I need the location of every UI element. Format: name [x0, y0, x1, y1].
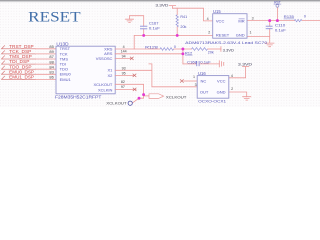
- wire R41 top stem to 3.3VD rail: [176, 8, 178, 15]
- net label TRST_DSP: [2, 46, 36, 49]
- net label TDO_DSP: [2, 66, 36, 69]
- no-connect x XCLKIN: [133, 88, 137, 91]
- junction ARS tie: [181, 52, 184, 55]
- wire U16 GND pin2 to ground: [229, 92, 247, 97]
- svg-text:U16: U16: [198, 71, 206, 76]
- off-page connector circle XCLKOUT bottom: [128, 101, 132, 105]
- svg-text:R135: R135: [284, 15, 294, 19]
- svg-text:XCLKOUT: XCLKOUT: [166, 96, 187, 100]
- wire C167 bottom stem: [143, 29, 145, 36]
- net label texts: [9, 44, 34, 80]
- wire R41 bottom stem: [176, 27, 178, 36]
- svg-text:4: 4: [231, 74, 233, 78]
- svg-text:VCC: VCC: [216, 19, 225, 24]
- resistor R135 zero ohm: [294, 19, 301, 21]
- wire C168 left: [183, 63, 197, 65]
- net label TMS_DSP: [2, 56, 36, 59]
- junction XCLKOUT net: [142, 93, 145, 96]
- ic U15 body: [213, 14, 247, 39]
- wire TDI: [36, 63, 57, 65]
- svg-text:20k: 20k: [180, 25, 186, 29]
- wire stub to port pennant: [144, 95, 150, 97]
- svg-text:2: 2: [231, 87, 233, 91]
- junction R41/reset-net: [176, 34, 179, 37]
- wire XRS continues after R128: [174, 48, 192, 50]
- power 3.3VD bar above U16: [243, 66, 249, 68]
- wire TCK: [36, 53, 57, 55]
- svg-text:ADM6713RAKS-2.63V-4 Lead SC70: ADM6713RAKS-2.63V-4 Lead SC70: [185, 41, 267, 45]
- wire 3.3VD rail to U15 VCC: [173, 8, 213, 21]
- svg-text:OCXO-OCX1: OCXO-OCX1: [198, 100, 226, 104]
- wire C110 bottom stem to ground: [269, 29, 271, 43]
- svg-text:F28M35H52C1RFPT: F28M35H52C1RFPT: [55, 95, 102, 100]
- wire U15 GND pin1: [247, 36, 270, 38]
- capacitor C168 sideways: [197, 61, 199, 66]
- wire C110 top stem: [269, 21, 271, 27]
- ground sideways after C168: [219, 61, 223, 67]
- svg-text:VCC: VCC: [217, 78, 226, 83]
- wire XRS pin4: [115, 48, 160, 50]
- svg-text:3: 3: [252, 16, 254, 20]
- svg-text:RESET: RESET: [216, 32, 230, 37]
- wire U16 VCC pin4 to 3.3VD: [229, 67, 246, 78]
- junction XRS/R12: [181, 48, 184, 51]
- svg-text:R128: R128: [145, 45, 158, 49]
- no-connect x VSSOSC: [130, 57, 134, 60]
- wire TDO: [36, 68, 57, 70]
- off-page connector RST: [276, 4, 279, 7]
- wire TRST: [36, 48, 57, 50]
- svg-text:0: 0: [174, 45, 176, 49]
- svg-text:XCLKIN: XCLKIN: [98, 87, 113, 92]
- svg-text:3: 3: [195, 83, 197, 87]
- svg-text:86: 86: [49, 75, 54, 80]
- no-connect x U16 NC: [180, 79, 184, 82]
- net label EMU1_DSP: [2, 76, 36, 79]
- wire XCLKOUT pin82 down to off-page: [115, 84, 143, 102]
- svg-text:GND: GND: [217, 90, 226, 95]
- svg-text:82: 82: [121, 80, 125, 84]
- wire to 3.3VD pullup after R12: [208, 48, 221, 50]
- svg-text:4: 4: [123, 45, 125, 49]
- svg-text:RESET: RESET: [28, 9, 81, 25]
- resistor R128: [160, 48, 174, 51]
- svg-text:1: 1: [193, 75, 195, 79]
- svg-text:GND: GND: [236, 32, 245, 37]
- U13D right pin names: [93, 46, 113, 92]
- svg-text:144: 144: [121, 50, 127, 54]
- svg-text:C168: C168: [187, 60, 197, 64]
- wire RST stem up to circle: [276, 7, 278, 20]
- svg-text:2: 2: [208, 30, 210, 34]
- ic U13D body: [56, 46, 115, 94]
- svg-text:1: 1: [250, 31, 252, 35]
- svg-text:R12: R12: [185, 51, 192, 55]
- svg-text:VSSOSC: VSSOSC: [96, 56, 113, 61]
- svg-text:94: 94: [122, 54, 126, 58]
- svg-text:NC: NC: [201, 78, 207, 83]
- top gray bar: [0, 0, 320, 3]
- junction RST: [276, 19, 279, 22]
- svg-text:93: 93: [122, 66, 126, 70]
- wire ARS pin144: [115, 53, 183, 55]
- svg-text:3.3VD: 3.3VD: [155, 3, 168, 7]
- junction C110: [268, 19, 271, 22]
- svg-text:C167: C167: [149, 22, 159, 26]
- svg-text:0: 0: [304, 15, 306, 19]
- ground under C110: [265, 43, 274, 47]
- capacitor C110: [266, 26, 273, 29]
- ic U16 body: [197, 76, 229, 99]
- svg-text:C110: C110: [275, 23, 285, 27]
- wire reset net to U15 RESET: [134, 35, 213, 49]
- svg-text:4: 4: [207, 17, 209, 21]
- svg-text:X2: X2: [107, 73, 113, 78]
- wire C168 right to side ground: [199, 63, 219, 65]
- wire RST rail after R135: [302, 20, 320, 22]
- wire X2 pin95: [115, 74, 134, 76]
- svg-text:3.3VD: 3.3VD: [223, 48, 235, 52]
- svg-text:OUT: OUT: [200, 90, 209, 95]
- junction C167/reset-net: [142, 34, 145, 37]
- power 3.3VD side bar (pullup): [220, 47, 222, 52]
- svg-text:0.1uF: 0.1uF: [149, 26, 161, 30]
- ground under U16 GND: [243, 97, 251, 100]
- wire VSSOSC pin94: [115, 57, 132, 59]
- wire EMU1: [36, 78, 57, 80]
- wire EMU0: [36, 73, 57, 75]
- svg-text:EMU1: EMU1: [60, 77, 72, 82]
- resistor R12 pullup: [192, 48, 208, 51]
- svg-text:0.1uF: 0.1uF: [275, 28, 287, 32]
- no-connect x X2: [133, 74, 137, 77]
- net label TDI_DSP: [2, 61, 36, 64]
- capacitor C167: [140, 26, 147, 29]
- wire TMS: [36, 58, 57, 60]
- svg-text:97: 97: [121, 85, 125, 89]
- wire XCLKIN pin97: [115, 88, 136, 90]
- svg-text:95: 95: [122, 72, 126, 76]
- left pin numbers: [49, 44, 54, 80]
- wire U16 NC pin1: [184, 80, 198, 82]
- junction dot at off-page bend: [138, 97, 141, 100]
- wire C167 top stem to gnd arm: [130, 16, 144, 27]
- svg-text:U15: U15: [213, 9, 221, 14]
- svg-text:MR: MR: [238, 19, 244, 24]
- svg-text:20k: 20k: [208, 51, 214, 55]
- port pennant XCLKOUT: [149, 94, 164, 99]
- ground under C167 arm: [126, 19, 134, 22]
- svg-text:RST: RST: [274, 0, 281, 4]
- net label TCK_DSP: [2, 51, 36, 54]
- wire U15 MR pin3 to RST rail: [247, 20, 294, 22]
- svg-text:XCLKOUT: XCLKOUT: [106, 101, 127, 105]
- power 3.3VD top bar and stem: [169, 6, 175, 9]
- wire vertical joining XRS/ARS and down to C168: [182, 49, 184, 64]
- svg-text:R41: R41: [180, 15, 187, 19]
- net label EMU0_DSP: [2, 71, 36, 74]
- svg-text:3.3VD: 3.3VD: [238, 63, 253, 67]
- svg-text:0.1uF: 0.1uF: [200, 60, 211, 64]
- svg-text:EMU1_DSP: EMU1_DSP: [9, 75, 34, 80]
- U13D left pin names: [60, 46, 72, 82]
- resistor R41 vertical: [176, 15, 178, 27]
- right pin numbers: [121, 45, 127, 89]
- wire X1 pin93 to U16 OUT: [115, 64, 197, 87]
